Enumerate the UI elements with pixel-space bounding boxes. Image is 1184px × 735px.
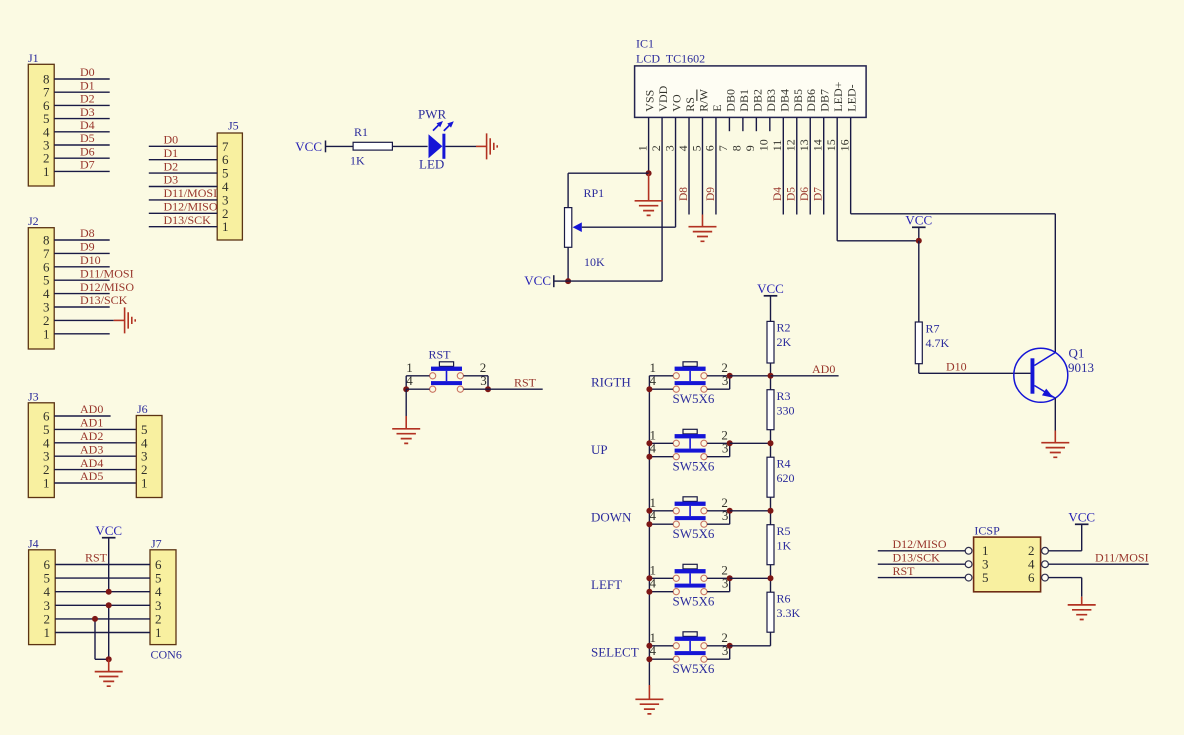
svg-text:D2: D2: [80, 92, 95, 106]
wire RST pin3: [463, 388, 488, 390]
wire R4 to R5: [770, 497, 772, 525]
node RST pins 1-4: [403, 386, 409, 392]
ground below J4/J7: [108, 659, 110, 671]
svg-text:1: 1: [222, 219, 229, 234]
svg-text:7: 7: [716, 145, 730, 151]
wire net AD0: [771, 375, 839, 377]
wire RST left column: [405, 376, 407, 389]
wire button common left column: [648, 376, 650, 685]
svg-text:VCC: VCC: [524, 273, 551, 288]
svg-text:VCC: VCC: [905, 213, 932, 228]
wire R2 to AD0 node: [770, 363, 772, 390]
svg-text:DB3: DB3: [764, 89, 778, 112]
svg-text:J1: J1: [28, 51, 39, 65]
wire J2 pin 8 net D8: [54, 239, 109, 241]
svg-text:J3: J3: [28, 389, 39, 403]
node SELECT pin4 to column: [646, 656, 652, 662]
svg-text:D7: D7: [813, 187, 825, 201]
svg-text:D7: D7: [80, 158, 95, 172]
wire IC1 pin 6: [715, 117, 717, 214]
wire J3 pin 6 net AD0: [54, 415, 110, 417]
svg-text:UP: UP: [591, 442, 608, 457]
svg-text:5: 5: [689, 145, 703, 151]
ICSP pin circle 5: [965, 574, 972, 581]
node LEFT pin4 to column: [646, 589, 652, 595]
wire J3 pin 4 to J6 net AD2: [54, 442, 136, 444]
ICSP pin circle 3: [965, 561, 972, 568]
svg-text:R1: R1: [354, 125, 368, 139]
wire J3 pin 5 to J6 net AD1: [54, 428, 136, 430]
svg-text:10K: 10K: [584, 255, 605, 269]
wire R3 to R4: [770, 430, 772, 458]
wire UP pin3: [707, 456, 730, 458]
svg-text:D0: D0: [164, 133, 179, 147]
wire IC1 pin 14: [823, 117, 825, 214]
wire J3 pin 2 to J6 net AD4: [54, 469, 136, 471]
wire R1 to LED: [392, 145, 427, 147]
svg-text:D8: D8: [80, 226, 95, 240]
ICSP pin circle 2: [1042, 547, 1049, 554]
wire VCC port to RP1: [554, 280, 568, 282]
wire IC1 pin 13: [809, 117, 811, 214]
svg-text:1: 1: [141, 476, 148, 491]
wire R6 to SELECT: [770, 632, 772, 646]
ICSP pin circle 4: [1042, 561, 1049, 568]
wire SELECT pin2: [707, 645, 730, 647]
wire LEFT pin3: [707, 591, 730, 593]
svg-text:2: 2: [649, 145, 663, 151]
wire IC1 pin 10: [769, 117, 771, 131]
svg-text:RST: RST: [893, 564, 916, 578]
svg-text:D11/MOSI: D11/MOSI: [80, 266, 134, 280]
node LEFT pin1 to column: [646, 575, 652, 581]
wire pin2 row jog down: [94, 619, 96, 659]
svg-text:D11/MOSI: D11/MOSI: [164, 186, 218, 200]
svg-text:SW5X6: SW5X6: [673, 391, 715, 406]
wire RST pin2: [463, 375, 488, 377]
pushbutton LEFT SW5X6: [673, 564, 707, 595]
wire J4 pin 1 to J7 pin 1: [55, 632, 150, 634]
svg-text:D9: D9: [705, 187, 717, 201]
svg-text:D4: D4: [772, 187, 784, 201]
wire IC1 pin 8: [742, 117, 744, 131]
wire J1 pin 3 net D5: [54, 144, 109, 146]
wire IC1 pin 2: [661, 117, 663, 281]
resistor R6 3.3K: [767, 592, 774, 632]
transistor Q1 9013: [1014, 348, 1068, 402]
wire SELECT to ladder: [730, 645, 771, 647]
wire RP1 top to IC1 pin1: [567, 173, 569, 207]
wire LEFT to ladder: [730, 577, 771, 579]
svg-text:330: 330: [777, 404, 795, 418]
svg-text:DB7: DB7: [818, 89, 832, 112]
ground below IC1 pin1: [648, 173, 650, 201]
RP1 wiper arrow: [573, 222, 582, 232]
wire J3 pin 3 to J6 net AD3: [54, 455, 136, 457]
wire ICSP pin 1 net D12/MISO: [878, 550, 965, 552]
svg-text:6: 6: [703, 145, 717, 151]
wire RST net out: [488, 388, 543, 390]
wire RIGTH pin4: [649, 388, 673, 390]
wire LEFT pin1: [649, 577, 673, 579]
node RIGTH pin4 to column: [646, 386, 652, 392]
svg-text:1: 1: [635, 145, 649, 151]
svg-text:VCC: VCC: [1068, 510, 1095, 525]
svg-text:J4: J4: [28, 536, 39, 550]
LED PWR: [429, 134, 443, 158]
svg-text:14: 14: [811, 139, 825, 151]
svg-text:D5: D5: [786, 187, 798, 201]
wire IC1 pin 3: [675, 117, 677, 227]
wire J5 pin 7 net D0: [149, 145, 217, 147]
node IC1 pin1 / RP1: [646, 170, 652, 176]
wire RST pin1: [406, 375, 429, 377]
wire RST pin4: [406, 388, 429, 390]
node junction pin4 row: [106, 589, 112, 595]
node RP1 bottom: [565, 278, 571, 284]
wire J4 pin 6 to J7 pin 6 net RST: [55, 564, 150, 566]
node junction ground rail: [106, 656, 112, 662]
svg-text:LED: LED: [419, 157, 444, 172]
svg-text:RIGTH: RIGTH: [591, 374, 631, 389]
svg-text:1: 1: [43, 326, 50, 341]
wire IC1 pin 11: [782, 117, 784, 214]
svg-text:LED+: LED+: [831, 81, 845, 111]
node DOWN pin4 to column: [646, 521, 652, 527]
node junction pin3 row: [106, 602, 112, 608]
svg-text:16: 16: [837, 139, 851, 151]
svg-text:DB6: DB6: [804, 89, 818, 112]
svg-text:AD2: AD2: [80, 429, 103, 443]
wire IC1 pin 4: [688, 117, 690, 214]
svg-text:9: 9: [743, 145, 757, 151]
svg-text:IC1: IC1: [636, 37, 654, 51]
wire J4 pin 3 to J7 pin 3: [55, 604, 150, 606]
node UP pin1 to column: [646, 440, 652, 446]
ground below IC1 pin5 R/W: [701, 215, 703, 227]
svg-text:LEFT: LEFT: [591, 577, 622, 592]
wire UP pin2: [707, 442, 730, 444]
node SELECT pins 2-3: [727, 643, 733, 649]
wire DOWN pin3: [707, 523, 730, 525]
svg-text:J5: J5: [228, 119, 239, 133]
wire IC1 pin 9: [755, 117, 757, 131]
svg-text:DB0: DB0: [723, 89, 737, 112]
svg-text:D2: D2: [164, 159, 179, 173]
wire SELECT pin3: [707, 658, 730, 660]
node RST pins 2-3: [485, 386, 491, 392]
svg-text:E: E: [710, 104, 724, 111]
node DOWN pin1 to column: [646, 508, 652, 514]
wire RST right column: [487, 376, 489, 389]
svg-text:2K: 2K: [777, 335, 792, 349]
node junction pin2 row: [92, 616, 98, 622]
node RIGTH pins 2-3: [727, 373, 733, 379]
svg-text:DB5: DB5: [791, 89, 805, 112]
svg-text:1K: 1K: [350, 154, 365, 168]
svg-text:D5: D5: [80, 131, 95, 145]
svg-text:RP1: RP1: [584, 186, 605, 200]
svg-text:Q1: Q1: [1069, 346, 1085, 361]
svg-text:D1: D1: [80, 78, 95, 92]
svg-text:4.7K: 4.7K: [926, 336, 950, 350]
svg-text:11: 11: [770, 140, 784, 152]
svg-text:VSS: VSS: [643, 90, 657, 112]
wire VCC rail to IC1 pin2 VDD: [568, 280, 662, 282]
resistor R5 1K: [767, 525, 774, 565]
wire IC1 pin 5: [701, 117, 703, 214]
svg-text:VCC: VCC: [295, 139, 322, 154]
wire LEFT pin2: [707, 577, 730, 579]
wire Q1 emitter to ground: [1054, 398, 1056, 430]
wire R7 to Q1 base net D10: [918, 364, 920, 374]
wire J2 pin 5 net D11/MOSI: [54, 279, 109, 281]
svg-text:D9: D9: [80, 240, 95, 254]
wire ICSP pin 5 net RST: [878, 577, 965, 579]
power ground at J2 pin 2: [114, 319, 125, 321]
wire J2 pin 6 net D10: [54, 266, 109, 268]
wire RIGTH pin3: [707, 388, 730, 390]
wire J4 pin 4 to J7 pin 4: [55, 591, 150, 593]
wire VCC to R2: [770, 296, 772, 322]
svg-text:DB2: DB2: [750, 89, 764, 112]
svg-text:D3: D3: [164, 173, 179, 187]
wire UP pin1: [649, 442, 673, 444]
svg-text:5: 5: [982, 570, 989, 585]
svg-text:SW5X6: SW5X6: [673, 661, 715, 676]
node VCC / R7: [916, 238, 922, 244]
wire J5 pin 4 net D3: [149, 186, 217, 188]
svg-text:1: 1: [43, 164, 50, 179]
svg-text:R6: R6: [777, 592, 791, 606]
wire J1 pin 6 net D2: [54, 104, 109, 106]
wire LED to ground: [445, 145, 476, 147]
svg-text:D12/MISO: D12/MISO: [164, 200, 218, 214]
wire J4 pin 2 to J7 pin 2: [55, 618, 150, 620]
svg-text:AD0: AD0: [812, 362, 835, 376]
svg-text:15: 15: [824, 139, 838, 151]
pushbutton SELECT SW5X6: [673, 632, 707, 663]
wire UP to ladder: [730, 442, 771, 444]
node UP pins 2-3: [727, 440, 733, 446]
svg-text:R5: R5: [777, 524, 791, 538]
wire J1 pin 4 net D4: [54, 131, 109, 133]
svg-text:D1: D1: [164, 146, 179, 160]
wire J5 pin 3 net D11/MOSI: [149, 199, 217, 201]
node AD0: [768, 373, 774, 379]
svg-text:SW5X6: SW5X6: [673, 526, 715, 541]
svg-text:R2: R2: [777, 321, 791, 335]
wire VCC to R1: [326, 145, 354, 147]
svg-text:J7: J7: [151, 536, 162, 550]
svg-text:D0: D0: [80, 65, 95, 79]
wire ICSP pin6 to ground: [1048, 577, 1081, 579]
node ladder DOWN row: [768, 508, 774, 514]
svg-text:SW5X6: SW5X6: [673, 594, 715, 609]
svg-text:620: 620: [777, 471, 795, 485]
svg-text:R7: R7: [926, 322, 940, 336]
svg-text:RS: RS: [683, 97, 697, 112]
node UP pin4 to column: [646, 454, 652, 460]
svg-text:D12/MISO: D12/MISO: [893, 537, 947, 551]
node ladder UP row: [768, 440, 774, 446]
svg-text:9013: 9013: [1068, 360, 1094, 375]
svg-text:6: 6: [1028, 570, 1035, 585]
svg-text:D6: D6: [799, 187, 811, 201]
resistor R7 4.7K: [915, 322, 922, 364]
wire pin3 row down to ground rail: [108, 605, 110, 659]
wire J1 pin 5 net D3: [54, 118, 109, 120]
svg-text:J2: J2: [28, 214, 39, 228]
svg-text:ICSP: ICSP: [974, 524, 1000, 538]
wire VCC node to R7: [918, 241, 920, 322]
wire J2 pin 2: [54, 319, 113, 321]
svg-text:DOWN: DOWN: [591, 509, 632, 524]
svg-text:VDD: VDD: [656, 85, 670, 111]
wire J5 pin 2 net D12/MISO: [149, 212, 217, 214]
wire J5 pin 5 net D2: [149, 172, 217, 174]
node DOWN pins 2-3: [727, 508, 733, 514]
wire J1 pin 2 net D6: [54, 157, 109, 159]
svg-text:RST: RST: [85, 551, 108, 565]
svg-text:LED-: LED-: [845, 84, 859, 111]
pushbutton DOWN SW5X6: [673, 497, 707, 528]
wire UP right column: [729, 443, 731, 456]
svg-text:D11/MOSI: D11/MOSI: [1095, 550, 1149, 564]
wire J5 pin 1 net D13/SCK: [149, 226, 217, 228]
pushbutton UP SW5X6: [673, 429, 707, 460]
wire ICSP pin2 to VCC: [1048, 550, 1081, 552]
wire LEFT right column: [729, 578, 731, 591]
svg-text:13: 13: [797, 139, 811, 151]
svg-text:DB1: DB1: [737, 89, 751, 112]
wire IC1 pin 12: [796, 117, 798, 214]
ground below Q1: [1054, 431, 1056, 443]
svg-text:1: 1: [155, 625, 162, 640]
wire J2 pin 7 net D9: [54, 252, 109, 254]
wire R5 to R6: [770, 565, 772, 593]
wire J1 pin 7 net D1: [54, 91, 109, 93]
wire RST to ground: [405, 389, 407, 416]
wire UP pin4: [649, 456, 673, 458]
wire J1 pin 8 net D0: [54, 78, 109, 80]
svg-text:10: 10: [757, 139, 771, 151]
ICSP pin circle 1: [965, 547, 972, 554]
ground below RST: [405, 416, 407, 429]
wire RIGTH pin2: [707, 375, 730, 377]
svg-text:R4: R4: [777, 457, 791, 471]
svg-text:1K: 1K: [777, 539, 792, 553]
wire IC1 pin 15: [836, 117, 838, 240]
svg-text:SELECT: SELECT: [591, 644, 639, 659]
node LEFT pins 2-3: [727, 575, 733, 581]
svg-text:12: 12: [784, 139, 798, 151]
wire IC1 pin16 LED- to Q1 collector: [851, 213, 1056, 215]
wire IC1 pin15 LED+ to VCC: [837, 240, 919, 242]
svg-text:4: 4: [676, 145, 690, 151]
wire RP1 bottom to VCC rail: [567, 247, 569, 281]
svg-text:1: 1: [43, 476, 50, 491]
wire J2 pin 3 net D13/SCK: [54, 306, 109, 308]
svg-text:D10: D10: [946, 360, 967, 374]
svg-text:DB4: DB4: [777, 89, 791, 112]
wire DOWN pin2: [707, 510, 730, 512]
resistor R2 2K: [767, 321, 774, 363]
wire J4 pin 5 to J7 pin 5: [55, 577, 150, 579]
svg-text:D13/SCK: D13/SCK: [164, 213, 212, 227]
svg-text:3: 3: [662, 145, 676, 151]
wire J3 pin 1 to J6 net AD5: [54, 482, 136, 484]
svg-text:CON6: CON6: [151, 648, 182, 662]
ground below ICSP: [1081, 597, 1083, 605]
svg-text:AD3: AD3: [80, 442, 103, 456]
svg-text:VCC: VCC: [757, 281, 784, 296]
ICSP pin circle 6: [1042, 574, 1049, 581]
svg-text:VO: VO: [670, 94, 684, 112]
svg-text:D13/SCK: D13/SCK: [80, 293, 128, 307]
svg-text:AD1: AD1: [80, 416, 103, 430]
svg-text:D4: D4: [80, 118, 95, 132]
svg-text:D3: D3: [80, 105, 95, 119]
wire DOWN right column: [729, 511, 731, 524]
node SELECT pin1 to column: [646, 643, 652, 649]
resistor R4 620: [767, 457, 774, 497]
wire DOWN to ladder: [730, 510, 771, 512]
svg-text:8: 8: [730, 145, 744, 151]
wire IC1 pin 16: [850, 117, 852, 213]
svg-text:D13/SCK: D13/SCK: [893, 550, 941, 564]
wire VCC to pin4 row: [108, 538, 110, 592]
ground below button column: [648, 685, 650, 699]
svg-text:VCC: VCC: [95, 523, 122, 538]
wire SELECT pin1: [649, 645, 673, 647]
wire ICSP pin4 net D11/MOSI: [1048, 563, 1148, 565]
svg-text:LCD TC1602: LCD TC1602: [636, 52, 705, 66]
wire ICSP pin 3 net D13/SCK: [878, 563, 965, 565]
svg-text:R3: R3: [777, 389, 791, 403]
wire DOWN pin1: [649, 510, 673, 512]
svg-text:RST: RST: [514, 375, 537, 389]
wire J5 pin 6 net D1: [149, 159, 217, 161]
svg-text:AD4: AD4: [80, 456, 103, 470]
power ground after LED: [476, 145, 487, 147]
wire LEFT pin4: [649, 591, 673, 593]
svg-text:D12/MISO: D12/MISO: [80, 280, 134, 294]
wire SELECT pin4: [649, 658, 673, 660]
resistor R3 330: [767, 390, 774, 430]
wire IC1 pin 7: [728, 117, 730, 131]
svg-text:D8: D8: [678, 187, 690, 201]
svg-text:D6: D6: [80, 144, 95, 158]
pushbutton RIGTH SW5X6: [673, 362, 707, 393]
wire RIGTH pin1: [649, 375, 673, 377]
svg-text:1: 1: [44, 625, 51, 640]
svg-text:PWR: PWR: [418, 106, 447, 121]
svg-text:RST: RST: [429, 348, 452, 362]
wire IC1 pin 1: [648, 117, 650, 173]
resistor R1: [353, 142, 392, 150]
wire SELECT right column: [729, 646, 731, 659]
svg-text:AD5: AD5: [80, 469, 103, 483]
wire J1 pin 1 net D7: [54, 170, 109, 172]
svg-text:J6: J6: [137, 402, 148, 416]
wire J2 pin 1: [54, 333, 109, 335]
wire J2 pin 4 net D12/MISO: [54, 293, 109, 295]
node ladder LEFT row: [768, 575, 774, 581]
wire RIGTH to ladder: [730, 375, 771, 377]
svg-text:AD0: AD0: [80, 402, 103, 416]
wire RP1 wiper to IC1 pin3 VO: [582, 226, 676, 228]
